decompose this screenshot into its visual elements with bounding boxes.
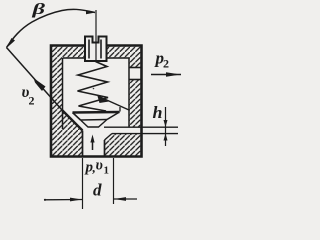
leader tick above disc corner xyxy=(119,107,121,112)
body top wall right hatched block xyxy=(106,46,142,59)
h dimension line with arrows xyxy=(164,107,168,146)
d extension line left xyxy=(82,158,84,209)
outlet window top line xyxy=(129,67,142,69)
svg-text:d: d xyxy=(93,181,102,200)
svg-text:2: 2 xyxy=(163,57,169,71)
channel right wall xyxy=(104,140,106,157)
p2 flow arrow xyxy=(151,72,181,77)
right wall inner edge xyxy=(128,58,130,127)
seat block chamfer xyxy=(105,134,113,141)
svg-text:β: β xyxy=(31,1,46,18)
svg-text:1: 1 xyxy=(104,165,110,177)
cavity ceiling line right xyxy=(106,57,129,59)
screw plug xyxy=(85,37,107,62)
center axis line xyxy=(95,10,97,60)
body right wall hatched (with outlet window) xyxy=(129,58,142,127)
body outer outline xyxy=(51,46,142,157)
d extension line right xyxy=(113,158,115,204)
svg-text:2: 2 xyxy=(29,94,35,108)
h extension line top (valve plane) xyxy=(104,126,178,128)
spring xyxy=(78,62,109,114)
ink speck in cavity xyxy=(93,88,95,90)
h extension line bottom (seat plane) xyxy=(112,133,178,135)
right jet leader line xyxy=(97,95,129,111)
funnel seat slope xyxy=(62,110,83,131)
v2 jet direction line xyxy=(7,48,63,111)
svg-text:h: h xyxy=(153,103,163,122)
left wall inner edge xyxy=(62,58,64,129)
valve cone tip xyxy=(81,120,108,128)
beta dimension arc xyxy=(6,9,96,48)
inlet flow arrow in channel xyxy=(90,135,94,151)
cavity ceiling line left xyxy=(63,57,85,59)
body left wall and bottom-left block hatched xyxy=(51,58,83,157)
channel left wall xyxy=(82,131,84,157)
valve disc xyxy=(73,112,120,120)
body top wall left hatched block xyxy=(51,46,85,59)
outlet window bottom line xyxy=(129,79,142,81)
bottom-right seat block hatched xyxy=(105,134,142,157)
svg-text:υ: υ xyxy=(96,158,103,174)
d dimension arrows xyxy=(44,197,137,201)
